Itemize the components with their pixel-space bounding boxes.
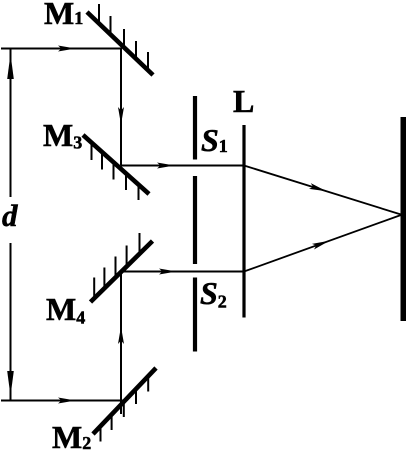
wire lower ray lens to screen (244, 215, 401, 272)
mirror M3 (83, 135, 149, 200)
dimension line d (left vertical with arrows) (7, 49, 14, 401)
screen (observation plane) (401, 117, 406, 321)
svg-text:S2: S2 (200, 275, 227, 312)
svg-text:d: d (2, 198, 18, 233)
svg-text:M3: M3 (43, 117, 82, 153)
slit plate (aperture screen with S1 S2) (193, 96, 197, 352)
svg-text:S1: S1 (201, 122, 228, 158)
mirror M1 (87, 4, 153, 75)
svg-text:L: L (233, 83, 254, 119)
svg-text:M1: M1 (44, 0, 83, 31)
svg-text:M4: M4 (46, 291, 85, 328)
wire M3 to slit S1 and lens (121, 163, 244, 169)
wire bottom beam to M2 (1, 398, 124, 404)
wire top beam to M1 (1, 46, 122, 52)
wire M1 to M3 (vertical beam) (118, 49, 124, 166)
wire M2 to M4 (vertical beam) (118, 272, 124, 415)
lens L (242, 125, 245, 318)
mirror M2 (93, 368, 156, 442)
mirror M4 (91, 233, 153, 302)
svg-text:M2: M2 (52, 419, 91, 450)
wire M4 to slit S2 and lens (121, 269, 244, 275)
wire upper ray lens to screen (244, 166, 401, 215)
